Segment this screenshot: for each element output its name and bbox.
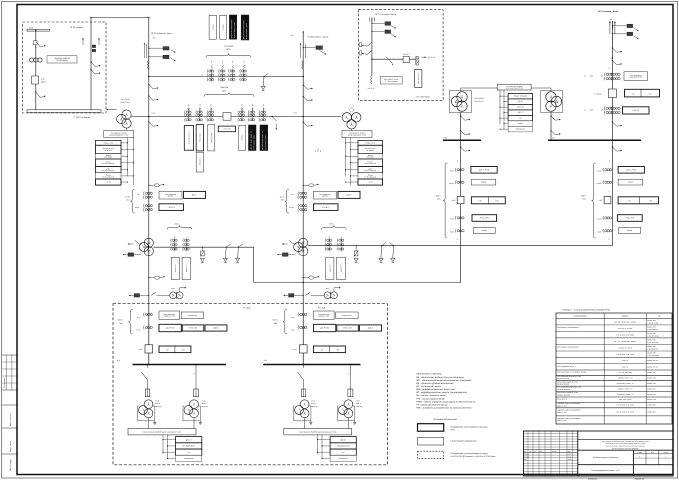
- transformer T-C three windings: [457, 92, 467, 102]
- svg-text:Н.контр.: Н.контр.: [524, 456, 530, 458]
- svg-text:РУч-ВнВ: РУч-ВнВ: [318, 307, 326, 310]
- brace bay R1: [443, 163, 447, 238]
- svg-text:Оборудование, проектируемое по: Оборудование, проектируемое по данному: [451, 425, 488, 428]
- svg-text:делу,: делу,: [451, 429, 456, 431]
- label box DANSIT 1065: [47, 56, 77, 63]
- wire T-B down to PT box: [351, 129, 353, 131]
- svg-text:ДЗТ (Т, РТ] В: ДЗТ (Т, РТ] В: [626, 168, 637, 171]
- svg-text:Реконструкция ПС 110/10 Лесова: Реконструкция ПС 110/10 Лесовая, ПС 110/…: [602, 441, 649, 443]
- YuL box feeder L: [134, 294, 139, 297]
- wire feeder R vertical: [611, 21, 613, 140]
- reactor coil B: [371, 76, 372, 84]
- wire TSN B1a down: [148, 418, 150, 421]
- fuse 2 B1: [194, 389, 199, 397]
- breaker bay B1: [145, 345, 153, 353]
- svg-text:З ТБ /ТнВ Чбрнв: З ТБ /ТнВ Чбрнв: [416, 96, 430, 99]
- arrow PT pair M: [333, 288, 335, 292]
- disconnector QS A3: [91, 62, 95, 67]
- dashed enclosure RU 10kV: [113, 304, 387, 465]
- wire T-D to bus 1X: [550, 112, 552, 140]
- svg-text:с ДТ-10 (Л: с ДТ-10 (Л: [427, 56, 435, 59]
- label box bay B2 row2c: [360, 325, 382, 331]
- svg-text:10.18: 10.18: [568, 459, 572, 461]
- bus bar section A bottom: [27, 110, 101, 113]
- label box +TO feeder M: [314, 204, 339, 211]
- vertical label box YuUL M2: [337, 257, 346, 279]
- wire B main: [371, 18, 373, 76]
- svg-text:Обозначения с перечнем:: Обозначения с перечнем:: [416, 373, 442, 376]
- svg-text:ТП-10ТАП: ТП-10ТАП: [224, 45, 234, 48]
- CT column B: [416, 56, 419, 59]
- wire 110kV bus section left: [149, 76, 303, 78]
- arrow to DT-10: [422, 56, 427, 58]
- label box bay B2 row1a: [314, 311, 335, 319]
- brace CT feeder M: [285, 190, 289, 214]
- node B main: [371, 59, 372, 60]
- svg-text:Оборудование, устанавливаемое: Оборудование, устанавливаемое по заказу: [451, 452, 488, 455]
- CT feeder L row2: [142, 204, 145, 208]
- wire PT riser T-A 1: [127, 138, 129, 177]
- dashed enclosure PS Chumovo: [358, 10, 443, 101]
- svg-text:Лч1: Лч1: [174, 235, 176, 238]
- voltage transformer pair L: [170, 292, 177, 299]
- svg-text:Инв. № подл.: Инв. № подл.: [9, 459, 12, 471]
- wire B lateral: [372, 58, 416, 60]
- wire feeder inside A: [90, 18, 92, 111]
- svg-text:Лч1: Лч1: [211, 104, 213, 107]
- svg-text:+чб: +чб: [166, 348, 169, 351]
- svg-text:РУч-ВнВ: РУч-ВнВ: [243, 307, 251, 310]
- wire loop TSN B1b: [182, 406, 184, 421]
- wire stack riser C2: [503, 90, 505, 130]
- label box toki reaktorov: [624, 72, 648, 81]
- relay box feeder M1: [303, 47, 304, 48]
- relay row T-A 5: [96, 167, 122, 173]
- svg-text:Лист: Лист: [651, 452, 654, 454]
- breaker bay R1: [457, 196, 464, 204]
- label box bay R1 row3: [472, 215, 497, 222]
- wire PT riser T-A 2: [133, 138, 135, 186]
- relay row T-B 1: [358, 140, 383, 145]
- fuse 1 B1: [145, 389, 149, 397]
- disconnector T-D 1: [551, 116, 555, 120]
- relay box left of T-E: [282, 253, 288, 256]
- svg-text:Лч1: Лч1: [232, 60, 234, 63]
- wire TSN B1b down: [193, 418, 195, 421]
- ground TSN B2a: [310, 421, 312, 423]
- svg-text:ЛТ: ЛТ: [315, 150, 317, 152]
- svg-text:Лч1: Лч1: [222, 60, 224, 63]
- disconnector QS B2: [368, 50, 372, 54]
- svg-text:Согласовано: Согласовано: [3, 377, 6, 388]
- wire PT riser T-B 2: [350, 138, 352, 186]
- label box DL-T feeder M: [338, 191, 360, 198]
- svg-text:ПС ТП об Чумсв - Брснв: ПС ТП об Чумсв - Брснв: [375, 13, 396, 16]
- svg-text:М-42-155-ПП ПБ Панелей, М-42х: М-42-155-ПП ПБ Панелей, М-42х ПБЦ-ПП ПБ …: [451, 455, 497, 458]
- disconnector feeder M 1: [303, 85, 307, 89]
- wire T-D to tie box: [531, 87, 551, 89]
- svg-text:Лч1: Лч1: [243, 60, 245, 63]
- svg-text:ЗН-10: ЗН-10: [404, 53, 409, 56]
- wire TSN B2a down: [304, 418, 306, 421]
- vertical label box black 4: [260, 125, 268, 151]
- svg-text:1: 1: [665, 455, 666, 458]
- wire branch 2 B1: [195, 365, 197, 390]
- transformer T-A three windings: [122, 110, 131, 119]
- svg-text:З-10: З-10: [41, 78, 45, 81]
- node loop at feeder M: [303, 282, 304, 283]
- svg-text:+чб: +чб: [631, 92, 634, 95]
- earth switch L2 b: [238, 247, 239, 248]
- relay row T-B 7: [358, 179, 383, 185]
- transformer T-D enclosure: [541, 91, 563, 113]
- transformer T-E three windings: [299, 238, 308, 247]
- svg-text:С ТБ/ТЛ об Брксцб: С ТБ/ТЛ об Брксцб: [74, 116, 91, 119]
- svg-text:РТО Тб: РТО Тб: [633, 109, 639, 112]
- arrow flag A up right: [98, 38, 100, 45]
- vertical label box RSE: [196, 125, 203, 151]
- ground TSN B1b: [199, 421, 201, 423]
- breaker Q A: [32, 76, 39, 84]
- ground TSN B2b: [354, 421, 356, 423]
- svg-text:Примеч.: Примеч.: [622, 315, 630, 318]
- wire feeder R dashed segment: [611, 37, 613, 45]
- svg-text:РТ] В, МТб: РТ] В, МТб: [480, 217, 489, 220]
- label box bay R1 chb TO: [471, 197, 505, 204]
- node feeder M bus2: [302, 116, 304, 118]
- relay row T-A 2: [96, 145, 122, 153]
- label box bay B1 row2b: [182, 325, 204, 331]
- wire link left bay to loop: [154, 246, 254, 248]
- relay row T-B 3: [358, 154, 383, 160]
- vertical label box YuUL L2: [182, 257, 191, 279]
- CT feeder M row1: [297, 191, 300, 195]
- disconnector bay R2: [612, 147, 616, 151]
- svg-text:Листов: Листов: [664, 452, 669, 454]
- vertical label box LEA-S: [184, 126, 193, 151]
- cable termination feeder L: [144, 43, 146, 58]
- PT connection box T-A: [104, 131, 134, 138]
- label box bay B2 row2a: [314, 324, 336, 331]
- svg-text:Лч1: Лч1: [341, 235, 343, 238]
- relay row bottom B2 3: [330, 449, 356, 455]
- relay row T-B 2: [358, 145, 383, 153]
- label box RTO Tb: [623, 107, 650, 114]
- node feeder L bus2: [148, 116, 150, 118]
- svg-text:НВ - обозначение, выборка блоч: НВ - обозначение, выборка блочных обозна…: [416, 376, 464, 379]
- svg-text:Лч1: Лч1: [263, 104, 265, 107]
- wire bay R1 vertical: [460, 140, 462, 236]
- vertical label box black 2: [241, 15, 249, 40]
- YuL box feeder M: [289, 294, 294, 297]
- transformer T-D three windings: [546, 92, 556, 102]
- vertical label box YuUL M1: [326, 257, 334, 279]
- svg-text:10/10.5-10.5: 10/10.5-10.5: [474, 100, 484, 103]
- vertical label box SIP: [415, 70, 422, 88]
- svg-text:Лч1: Лч1: [242, 104, 244, 107]
- relay row bottom B2 2: [330, 443, 356, 449]
- svg-text:10/10.5-10.5: 10/10.5-10.5: [121, 101, 131, 104]
- wire A main: [35, 31, 37, 110]
- label box tok ravenstva feeder L: [159, 191, 182, 199]
- svg-text:Брксн: Брксн: [41, 81, 46, 84]
- relay box feeder L1: [148, 48, 149, 49]
- relay row T-A 6: [96, 173, 122, 179]
- svg-text:ВЛ ПО Брксн - Брснв: ВЛ ПО Брксн - Брснв: [265, 135, 267, 149]
- relay row bottom B1 1: [176, 437, 202, 443]
- node feeder R: [612, 57, 613, 58]
- svg-text:Лч1: Лч1: [211, 60, 213, 63]
- cable termination B: [368, 18, 370, 22]
- fuse 2 B2: [348, 389, 353, 397]
- brace CT feeder L: [131, 190, 135, 214]
- vertical label box black 1: [229, 15, 236, 39]
- title block frame: [524, 431, 674, 476]
- svg-text:10.18: 10.18: [568, 454, 572, 456]
- disconnector feeder R 1: [612, 48, 616, 52]
- brace over CT group 1: [206, 54, 251, 58]
- wire PT riser T-B 1: [345, 138, 347, 177]
- svg-text:ДЗФ - дифференциальные защит л: ДЗФ - дифференциальные защит линз;: [416, 388, 456, 391]
- svg-text:ГИП: ГИП: [524, 459, 527, 461]
- wire T-A down to PT box: [126, 128, 128, 130]
- label box bay B2 row1b: [336, 312, 358, 319]
- CT feeder M row2: [297, 204, 300, 208]
- svg-text:ЮУЛ: ЮУЛ: [329, 223, 333, 226]
- svg-text:+чб: +чб: [320, 348, 323, 351]
- svg-text:ВЗ - контакт строенных защит;: ВЗ - контакт строенных защит;: [416, 394, 447, 397]
- label box bay B2 row2b: [337, 325, 359, 331]
- title block left grid: [527, 431, 529, 476]
- legend box new equipment: [418, 424, 444, 432]
- legend box existing: [418, 438, 444, 446]
- disconnector feeder R 2: [612, 61, 616, 65]
- PT drain symbol feeder M: [309, 184, 314, 187]
- disconnector QS B3: [389, 59, 393, 63]
- svg-text:+ТО В-(Т: +ТО В-(Т: [168, 206, 176, 209]
- brace bay R2: [592, 163, 596, 238]
- dashed enclosure PS Bereznik: [23, 22, 107, 113]
- svg-text:РТЗ - токовая защита линий;: РТЗ - токовая защита линий;: [416, 397, 445, 400]
- vertical label box YuK: [239, 126, 246, 151]
- svg-text:а 4-Тб П: а 4-Тб П: [368, 87, 375, 90]
- svg-text:№: №: [658, 315, 660, 318]
- label box bay R1 row4: [473, 228, 495, 234]
- disconnector under bus B1: [142, 372, 148, 380]
- transformer TSN B1b: [190, 400, 199, 409]
- bus 10kV B1: [133, 364, 227, 366]
- svg-text:Кол.уч: Кол.уч: [529, 451, 533, 453]
- wire loop TSN B2a: [293, 406, 295, 421]
- relay box feeder R2: [612, 33, 613, 34]
- wire stack risers B1: [162, 435, 164, 454]
- surge arrester L2: [202, 247, 203, 248]
- svg-text:10.18: 10.18: [568, 456, 572, 458]
- wire stack riser C1: [499, 90, 501, 125]
- flag marker A1: [92, 45, 95, 48]
- svg-text:ПНФЛ - панель атрибутов защит: ПНФЛ - панель атрибутов защит щитов по о…: [416, 400, 476, 403]
- svg-text:2Тн-В 35/10: 2Тн-В 35/10: [474, 97, 483, 100]
- svg-text:Схема распределения защит по Т: Схема распределения защит по ТТ: [591, 469, 621, 472]
- wire loop horizontal: [254, 282, 461, 284]
- svg-text:АПГ - обозначенный защитам нап: АПГ - обозначенный защитам направления п…: [416, 379, 472, 382]
- arrow feeder M top: [302, 31, 304, 36]
- wire T-A to TNSh bus: [131, 116, 135, 118]
- svg-text:10/10 Брксцб: 10/10 Брксцб: [56, 59, 68, 62]
- disconnector QS B1: [368, 42, 372, 46]
- label box bay R2 row4: [619, 228, 641, 234]
- svg-text:Наименование: Наименование: [574, 315, 587, 318]
- wire loop vertical right: [460, 237, 462, 283]
- svg-text:ДФЗ-201 Лн1 защита перем.: ДФЗ-201 Лн1 защита перем.: [231, 19, 233, 39]
- relay row T-A 1: [96, 140, 122, 145]
- svg-text:НРБ - устройство установленных: НРБ - устройство установленных по токам …: [416, 406, 472, 409]
- svg-text:10 П об Брнсв - Вснгв: 10 П об Брнсв - Вснгв: [598, 10, 619, 13]
- bus X-V: [443, 139, 481, 141]
- wall bushing box: [223, 113, 231, 121]
- svg-text:Таблица 1 - Состав установленн: Таблица 1 - Состав установленных устройс…: [562, 309, 610, 312]
- relay row central 5: [508, 115, 532, 121]
- vertical label box feeders 2: [220, 15, 227, 39]
- wire bay B1 segs: [148, 296, 150, 345]
- cable termination feeder R: [609, 21, 611, 34]
- label box +TO feeder L: [159, 204, 184, 211]
- wire 110kV bus section 2: [135, 116, 341, 118]
- relay row T-B 5: [358, 167, 383, 173]
- label box bay R2 row1: [618, 167, 644, 174]
- svg-text:ТЗ - панель (вспомогательных);: ТЗ - панель (вспомогательных);: [416, 403, 448, 406]
- ground TSN B1a: [154, 421, 156, 423]
- svg-text:10 ТО об Брксн: 10 ТО об Брксн: [70, 26, 83, 29]
- PT tie box bottom B2: [284, 429, 352, 435]
- svg-text:Л: Л: [348, 373, 349, 375]
- relay row T-A 3: [96, 154, 122, 160]
- arrow T-A to bus A: [107, 109, 117, 111]
- relay row T-A 4: [96, 159, 122, 167]
- svg-text:РТ] В, МТб: РТ] В, МТб: [626, 217, 635, 220]
- label box cable LEA: [380, 77, 402, 84]
- svg-text:Лист: Лист: [534, 451, 537, 453]
- disconnector feeder R 3: [612, 122, 616, 126]
- svg-text:ТНШ-ПШ: ТНШ-ПШ: [220, 86, 228, 89]
- wire stack risers B2: [317, 435, 319, 454]
- wire bay R2 vertical: [611, 140, 613, 236]
- svg-text:Взам. инв. №: Взам. инв. №: [9, 414, 12, 426]
- label box bay B1 row1b: [181, 312, 203, 319]
- svg-text:+ТО В-(Т: +ТО В-(Т: [322, 206, 330, 209]
- transformer T-B three windings: [342, 113, 351, 122]
- vertical label box feeders 1: [209, 15, 216, 39]
- svg-text:НВ - обозначен уровнем выключе: НВ - обозначен уровнем выключения;: [416, 382, 454, 385]
- branch B2 with relay box: [371, 31, 372, 32]
- svg-text:+чб, +ТО: +чб, +ТО: [223, 128, 231, 131]
- title block right dividers: [578, 438, 673, 440]
- disconnector right of TNSh: [272, 117, 276, 122]
- svg-text:2Тс-Л 35/10: 2Тс-Л 35/10: [121, 98, 130, 101]
- disconnector feeder L 1: [149, 85, 153, 89]
- relay row central 3: [508, 104, 532, 110]
- arrow PT pair L: [179, 288, 181, 292]
- flag marker A2: [92, 49, 95, 52]
- svg-text:ДФЗ-201 Лн2 защита перем.: ДФЗ-201 Лн2 защита перем.: [243, 19, 245, 39]
- svg-text:Лч1: Лч1: [199, 104, 201, 107]
- relay row bottom B2 1: [330, 437, 356, 443]
- vertical label box zashita MV: [208, 125, 215, 151]
- wire feeder Bresnov vertical: [302, 31, 304, 365]
- node on bus A: [35, 30, 36, 31]
- surge circle T-B: [350, 108, 354, 112]
- relay box feeder L2: [148, 56, 149, 57]
- relay row central 4: [508, 110, 532, 116]
- wire loop vertical left: [253, 247, 255, 282]
- bus 1-X: [548, 139, 641, 141]
- earthing switch on bus1: [263, 76, 264, 77]
- PT drain symbol feeder L: [154, 184, 159, 187]
- relay row bottom B1 4: [176, 455, 202, 461]
- wire T-C to tie box: [461, 87, 498, 89]
- svg-text:Подп. и дата: Подп. и дата: [9, 440, 12, 452]
- disconnector QS A2: [35, 91, 36, 92]
- fuse 1 B2: [301, 389, 305, 397]
- transformer TSN B2b: [344, 400, 353, 409]
- label box bay B1 row2c: [205, 325, 227, 331]
- disconnector bay R1: [461, 147, 465, 151]
- svg-text:10 ТБ об Брксцб - Брксн: 10 ТБ об Брксцб - Брксн: [151, 32, 172, 35]
- margin stamp table: [2, 354, 17, 356]
- svg-text:ВР: ВР: [320, 150, 322, 152]
- disconnector T-D 2: [551, 131, 555, 135]
- branch B1 with relay box: [372, 22, 385, 24]
- label box tok ravenstva feeder M: [314, 191, 337, 199]
- PT drain 2 feeder L: [154, 276, 159, 279]
- CT feeder L row1: [142, 191, 145, 195]
- relay row bottom B1 3: [176, 449, 202, 455]
- relay box feeder R1: [612, 25, 613, 26]
- disconnector feeder L 3: [149, 122, 153, 126]
- svg-text:ДЗТ (Т, РТ] В: ДЗТ (Т, РТ] В: [479, 168, 490, 171]
- node feeder M bus1: [302, 76, 304, 78]
- label box bay R2 row2: [618, 179, 642, 185]
- label box bay R2 chb TO: [618, 197, 658, 204]
- wire bay R2 to L1: [611, 237, 613, 246]
- vertical label box YuUL L1: [171, 257, 179, 279]
- relay row central 6: [508, 121, 532, 127]
- svg-text:60/1: 60/1: [222, 89, 226, 92]
- line trap feeder M: [302, 61, 303, 69]
- legend box relocated: [418, 451, 444, 459]
- voltage transformer pair M: [324, 292, 331, 299]
- wire loop TSN B2b: [336, 406, 338, 421]
- label box chb to horizontal: [218, 126, 235, 132]
- disconnector feeder L 2: [149, 96, 153, 100]
- svg-text:ДФЗ-504 защита перем. Лн: ДФЗ-504 защита перем. Лн: [262, 131, 264, 149]
- PT tie box bottom B1: [128, 429, 196, 435]
- vertical label box black 3: [249, 125, 257, 151]
- label box bay B1 row1a: [159, 311, 180, 319]
- label box DL-T feeder L: [184, 191, 206, 198]
- svg-text:Существующее оборудование.: Существующее оборудование.: [451, 440, 478, 443]
- svg-text:Л: Л: [194, 373, 195, 375]
- svg-text:10 ПО об Брксн - Брснв: 10 ПО об Брксн - Брснв: [308, 35, 329, 38]
- svg-text:Условные обозначения: Условные обозначения: [433, 418, 457, 421]
- wire link mid bay: [308, 245, 613, 247]
- wire branch 2 B2: [349, 365, 351, 390]
- label box bay B2 chb: [314, 346, 346, 353]
- disconnector T-C 1: [461, 116, 465, 120]
- svg-text:Лч1: Лч1: [188, 104, 190, 107]
- breaker bay R2: [604, 196, 611, 204]
- transformer T-F three windings: [144, 238, 153, 247]
